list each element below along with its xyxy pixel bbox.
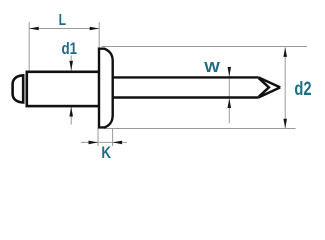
svg-text:W: W xyxy=(204,59,220,76)
arrowhead W bottom xyxy=(228,99,232,109)
rivet flange dome xyxy=(99,49,113,128)
arrowhead L right xyxy=(90,27,100,31)
extension line d2 top xyxy=(102,46,308,48)
extension line L right xyxy=(98,22,100,48)
dimension line L xyxy=(29,28,99,30)
mandrel tip outer bottom edge xyxy=(258,87,280,97)
dimension line d2 xyxy=(284,47,286,128)
svg-text:L: L xyxy=(59,12,67,29)
mandrel top line xyxy=(112,76,258,78)
mandrel bottom line xyxy=(112,96,258,98)
dimension line K xyxy=(81,141,127,143)
arrowhead K right xyxy=(113,141,123,145)
extension line d2 bottom xyxy=(104,128,296,130)
arrowhead d1 bottom xyxy=(69,107,73,117)
svg-text:K: K xyxy=(101,144,111,162)
arrowhead W top xyxy=(228,67,232,77)
arrowhead L left xyxy=(29,27,39,31)
extension line K left xyxy=(97,129,99,147)
extension line K right xyxy=(112,129,114,147)
rivet blind-end cap xyxy=(13,75,24,102)
arrowhead d1 top xyxy=(69,61,73,71)
arrowhead d2 bottom xyxy=(283,119,287,129)
dimension line d1 xyxy=(70,56,72,125)
mandrel tip chevron notch xyxy=(259,78,269,97)
svg-text:d1: d1 xyxy=(62,39,78,58)
rivet body xyxy=(27,72,99,106)
dimension line W xyxy=(228,73,230,124)
arrowhead d2 top xyxy=(283,47,287,57)
mandrel tip outer top edge xyxy=(258,77,280,87)
arrowhead K left xyxy=(89,141,99,145)
extension line L left xyxy=(28,22,30,70)
svg-text:d2: d2 xyxy=(294,79,311,100)
